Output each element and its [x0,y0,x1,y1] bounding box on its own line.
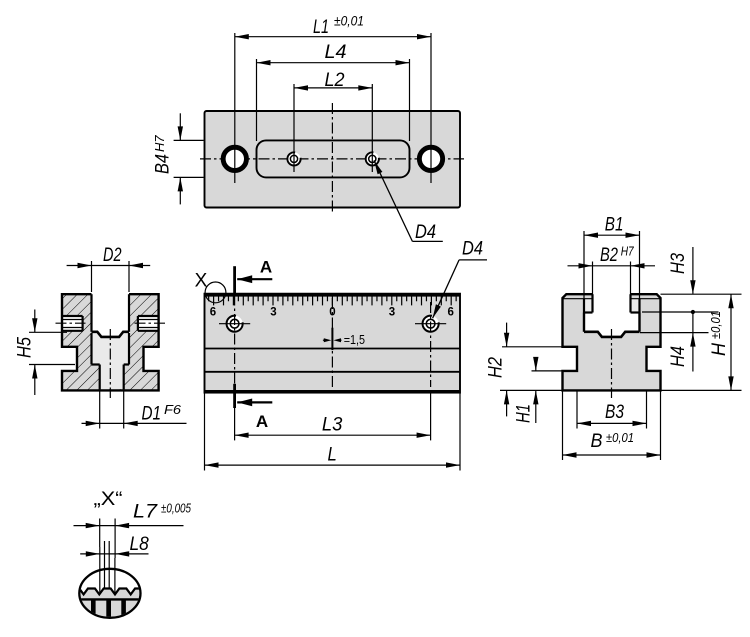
dimension H3 [692,247,694,294]
slot opening walls [90,294,92,332]
dimension H2 [506,323,508,347]
ruler hole left centermark [219,323,250,325]
hole right (L1) ring [419,147,442,170]
section arrow A bottom [237,401,272,403]
ruler groove line upper [205,348,461,350]
dimension L2 [294,87,372,89]
svg-text:H7: H7 [621,244,635,259]
leader D4 top view [374,160,412,241]
dimension H5 arrows [34,310,36,333]
svg-text:F6: F6 [164,402,182,417]
ruler hole right centermark [415,323,446,325]
dimension B1 [584,234,640,236]
ext line notch top [502,346,577,348]
cavity walls [583,313,585,332]
transverse bore right (white) [138,316,159,331]
svg-text:B2: B2 [600,245,618,266]
svg-text:±0,01: ±0,01 [708,311,723,339]
graduation sample tick [331,328,333,350]
svg-text:B3: B3 [605,402,624,423]
svg-text:B: B [591,431,603,452]
detail X circle [79,569,140,618]
svg-text:D4: D4 [415,222,436,243]
section line A-A thick top [233,266,236,294]
undercut groove right (light gray) [631,299,640,313]
svg-text:L3: L3 [322,414,343,435]
svg-text:D4: D4 [462,239,483,260]
ext line L right [459,393,461,471]
dimension H4 [692,312,694,372]
dimension B [563,454,661,456]
undercut groove left (light gray) [584,299,593,313]
graduation width mark arrows [323,339,326,341]
ext lines B [562,392,564,461]
transverse bore axis left [56,322,86,324]
top view plate body [205,111,461,208]
small hole D4 left (threaded) [287,152,300,165]
ext line L3 left [234,408,236,440]
ext line notch bottom [532,370,577,372]
svg-text:A: A [256,412,268,431]
slot opening walls right view [591,294,593,312]
svg-text:3: 3 [389,307,395,319]
transverse bore left edges [62,315,83,317]
ext line H5 bottom [29,364,75,366]
profile body outline [563,294,661,390]
ruler hole left (threaded) [227,316,243,332]
section body hatching [62,294,159,390]
section vertical centerline [109,329,111,398]
dimension H [730,294,732,390]
slot chamfer bottom [92,332,130,337]
dimension L7 [74,525,184,527]
svg-text:H4: H4 [668,346,689,367]
pocket D2 bottom [92,363,100,365]
ruler top thick edge [205,294,461,297]
ruler groove line lower [205,371,461,373]
transverse bore right edges [138,315,159,317]
pocket D2 walls [90,333,92,365]
dimension L4 [257,62,410,64]
section body outline [62,294,159,390]
ext lines B3 [576,392,578,429]
detail base line [75,598,145,600]
right hole centerline [430,302,432,387]
ext lines D2 [91,261,93,292]
svg-text:„X“: „X“ [94,489,123,510]
ruler vertical centerline [331,298,333,387]
svg-text:H7: H7 [152,135,167,152]
ext line slot left end [256,59,258,141]
dimension H1 [535,357,537,371]
svg-text:B1: B1 [605,215,624,236]
ext line slot bottom edge [174,176,204,178]
undercut groove borders [583,299,585,313]
ext line L3 right [430,393,432,441]
dimension D1 [82,422,187,424]
profile top lip line [563,298,593,300]
ext line bottom left [500,389,563,391]
ext line undercut depth [642,311,719,313]
dimension B2 [568,265,656,267]
svg-text:3: 3 [270,307,276,319]
detail serration profile [69,589,145,595]
svg-text:6: 6 [447,307,453,319]
svg-text:6: 6 [210,307,216,319]
dimension L1 [235,36,431,38]
section line A-A chain [234,295,236,384]
svg-text:H: H [709,343,730,356]
svg-text:L: L [328,444,337,465]
ext line right hole [430,33,432,183]
ruler body [205,294,461,393]
detail X circle marker [205,282,226,303]
svg-text:±0,005: ±0,005 [161,501,192,516]
transverse bore axis right [135,322,166,324]
svg-text:L1: L1 [313,17,329,38]
svg-text:L8: L8 [130,534,150,555]
small hole D4 right (threaded) [366,152,379,165]
dimension L8 [80,553,148,555]
svg-text:H3: H3 [668,253,689,274]
ext line left hole [234,33,236,183]
profile body gray fill [563,294,661,390]
graduation lines to detail [104,541,106,589]
ext line small hole right [371,84,373,172]
bore D1 (light gray) [100,365,124,390]
transverse bore left (white) [62,316,83,331]
svg-text:H5: H5 [15,337,36,358]
ext line L left [204,393,206,471]
svg-text:H2: H2 [486,357,507,378]
dimension B3 [577,422,647,424]
ext line small hole left [293,84,295,172]
ext line top surface right [661,293,742,295]
svg-text:L4: L4 [325,42,347,63]
top view vertical centerline [331,103,333,214]
hole left (L1) ring [223,147,246,170]
svg-text:D2: D2 [103,245,122,266]
ext line H5 top [29,331,67,333]
ruler bottom thick edge [205,390,461,393]
svg-text:L2: L2 [325,70,345,91]
ext line bottom surface right [661,389,742,391]
ext line slot top edge [174,139,204,141]
ruler hole right (threaded) [423,316,439,332]
dimension B4 upper arrow [179,113,181,140]
pocket D2 (light gray) [92,332,130,365]
ext line cavity bottom [640,332,709,334]
ext lines D1 [99,392,101,429]
svg-text:A: A [260,257,272,276]
detail graduation bars [91,601,126,619]
ext lines B2 [592,262,594,298]
H3 reference dot [691,310,695,314]
svg-text:=1,5: =1,5 [344,333,365,347]
leader D4 center view [459,259,487,261]
section body gray fill [62,294,159,390]
bore D1 walls [99,365,101,390]
dimension B4 lower arrow [179,177,181,204]
profile vertical centerline [611,329,613,398]
svg-text:B4: B4 [153,154,174,174]
ext lines B1 [583,231,585,311]
scale graduation ticks [209,297,457,306]
svg-text:L7: L7 [133,502,159,523]
top view horizontal centerline [200,158,464,160]
dimension L3 [235,434,431,436]
svg-text:±0,01: ±0,01 [606,430,634,445]
svg-text:±0,01: ±0,01 [334,14,364,29]
detail serration gray fill [69,589,145,619]
dimension D2 [67,265,151,267]
section line A-A thick bottom [233,384,236,408]
profile slot cavity (white) [584,294,640,337]
top view elongated slot [257,140,410,177]
svg-text:D1: D1 [142,404,162,425]
cavity chamfer bottom [584,332,640,337]
svg-text:H1: H1 [514,404,535,423]
dimension L [205,464,461,466]
slot opening (white) [92,294,130,337]
ext line slot right end [409,59,411,141]
section arrow A top [237,278,272,280]
ext lines L7 [99,519,101,548]
